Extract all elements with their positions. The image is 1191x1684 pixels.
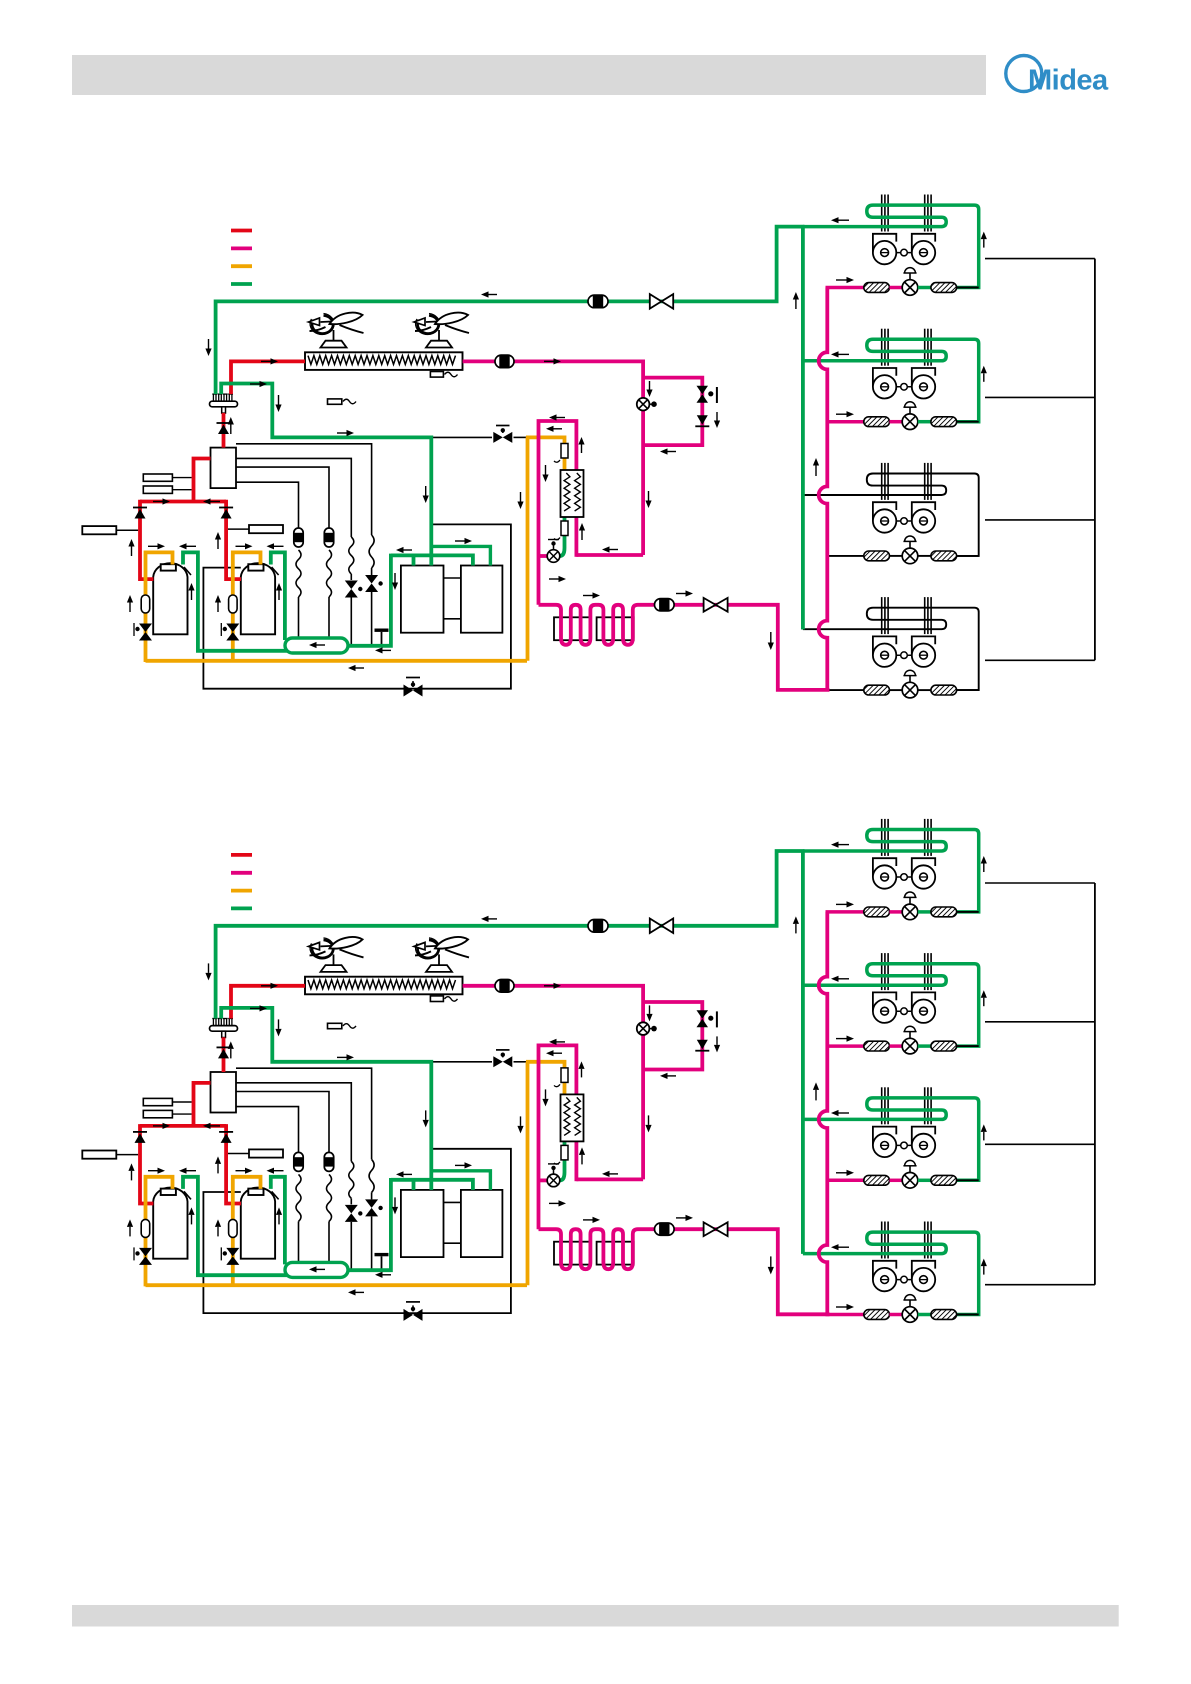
liquid pipe from HX (magenta) xyxy=(463,986,643,1180)
oil balance valve xyxy=(404,685,414,697)
indoor unit 3 strainer 1 xyxy=(864,551,890,561)
wire xyxy=(328,1221,330,1262)
subcooler right pipe (magenta) xyxy=(575,517,579,557)
indoor unit 2 fans xyxy=(885,1010,924,1012)
wire xyxy=(371,1216,373,1268)
subcooler plate HX xyxy=(561,470,584,517)
subcooler outlet (green) xyxy=(560,1141,565,1180)
label box xyxy=(143,1098,172,1105)
indoor unit 3 electronic expansion valve xyxy=(909,539,911,548)
accumulator branch (green) xyxy=(431,546,490,565)
check valve xyxy=(219,507,233,509)
indoor unit 1 pipe xyxy=(918,286,931,290)
check valve xyxy=(350,574,352,580)
accumulator tank 2 xyxy=(461,1190,503,1257)
indoor unit 1 strainer 1 xyxy=(864,907,890,917)
indoor unit 2 strainer 2 xyxy=(931,417,957,427)
indoor unit 2 coil + gas pipe xyxy=(803,964,979,1046)
check valve xyxy=(219,1131,233,1133)
EEV bypass (magenta) xyxy=(643,378,702,446)
oil valve xyxy=(139,624,152,633)
legend orange = oil pipe xyxy=(231,889,252,893)
header bar xyxy=(72,55,986,95)
pressure sensor xyxy=(328,399,342,404)
indoor unit 2 strainer 2 xyxy=(931,1041,957,1051)
legend red = discharge pipe xyxy=(231,853,252,857)
check valve xyxy=(133,1131,147,1133)
compressor 2 xyxy=(241,1188,275,1259)
subcooler EEV stub (magenta) xyxy=(539,1179,548,1183)
indoor unit 3 pipe xyxy=(957,1179,979,1181)
subcooler right pipe (magenta) xyxy=(575,1141,579,1181)
indoor unit 3 fans xyxy=(885,1144,924,1146)
subcooler loop (magenta) xyxy=(539,1045,577,1229)
indoor unit 2 flow arrow xyxy=(836,1038,847,1040)
indoor unit 4 coil + gas pipe xyxy=(803,1232,979,1314)
indoor unit 2 coil + gas pipe xyxy=(803,339,979,421)
accumulator branch (green) xyxy=(431,1171,490,1190)
label box xyxy=(143,1110,172,1117)
svg-text:Midea: Midea xyxy=(1028,65,1109,97)
compressor 1 discharge (red) xyxy=(140,1124,153,1203)
capillary xyxy=(327,550,332,597)
indoor unit 1 liquid pipe xyxy=(826,910,864,914)
indoor unit 1 flow arrow xyxy=(836,903,847,905)
indoor unit 3 pipe xyxy=(890,1179,903,1183)
indoor unit 2 electronic expansion valve xyxy=(909,1030,911,1039)
discharge manifold (red) xyxy=(140,1124,226,1128)
heater element xyxy=(430,996,443,1002)
oil pipe (orange) xyxy=(526,1062,530,1285)
compressor 2 xyxy=(241,563,275,634)
indoor unit 2 pipe xyxy=(890,1044,903,1048)
legend green = suction pipe xyxy=(231,907,252,911)
outdoor heat exchanger xyxy=(305,977,463,995)
indoor unit 4 pipe xyxy=(957,1314,979,1316)
accumulator manifold (green) xyxy=(391,555,473,565)
liquid pipe (magenta) xyxy=(576,1178,643,1182)
indoor unit 1 coil + gas pipe xyxy=(803,205,979,287)
indoor unit 4 pipe xyxy=(918,1313,931,1317)
tank connector xyxy=(444,618,461,620)
indoor unit 3 flow arrow xyxy=(983,1132,985,1141)
indoor unit 1 flow arrow xyxy=(983,864,985,873)
liquid pipe (magenta) xyxy=(576,553,643,557)
indoor unit 3 coil + gas pipe xyxy=(803,474,979,556)
indoor unit 4 flow arrow xyxy=(839,1246,850,1248)
liquid sight glass xyxy=(655,1223,675,1235)
indoor unit 2 flow arrow xyxy=(983,998,985,1007)
compressor 2 discharge (red) xyxy=(226,1124,241,1203)
indoor unit 4 flow arrow xyxy=(983,1266,985,1275)
compressor 1 discharge (red) xyxy=(140,500,153,579)
compressor 1 oil line (orange) xyxy=(146,1177,173,1287)
compressor 2 suction (green) xyxy=(271,1177,285,1265)
outdoor fan 1 xyxy=(312,316,333,334)
sight glass xyxy=(294,528,303,547)
4-way valve xyxy=(210,401,238,407)
check valve xyxy=(350,1198,352,1204)
indoor unit 1 flow arrow xyxy=(839,844,850,846)
indoor unit 3 fans xyxy=(885,520,924,522)
check valve xyxy=(371,568,373,575)
main EEV xyxy=(637,1022,650,1035)
indoor unit 2 flow arrow xyxy=(839,353,850,355)
oil separator xyxy=(211,448,237,489)
indoor unit 1 electronic expansion valve xyxy=(909,895,911,904)
suction header (green) xyxy=(285,1262,348,1277)
oil line 4 xyxy=(236,1107,299,1153)
capillary xyxy=(369,535,374,568)
indoor unit 3 pipe xyxy=(918,555,931,557)
wire xyxy=(328,597,330,638)
indoor unit 4 pipe xyxy=(890,689,903,691)
bypass stop valve xyxy=(697,1010,709,1019)
suction drop (green) xyxy=(346,1178,391,1270)
suction drop (green) xyxy=(346,554,391,646)
oil manifold (orange) xyxy=(146,659,528,663)
indoor unit 2 electronic expansion valve xyxy=(909,405,911,414)
indoor unit 1 strainer 2 xyxy=(931,907,957,917)
oil pipe (orange) xyxy=(526,437,530,660)
liquid main out (magenta) xyxy=(655,1229,830,1314)
accumulator tank 1 xyxy=(401,1190,444,1257)
oil return line xyxy=(236,1068,372,1159)
suction header (green) xyxy=(285,638,348,653)
oil pipe (orange) xyxy=(526,1062,565,1095)
indoor unit 4 liquid pipe xyxy=(826,1313,864,1317)
indoor unit 3 pipe xyxy=(890,555,903,557)
accumulator stub (green) xyxy=(429,555,433,565)
indoor unit 1 pipe xyxy=(957,911,979,913)
indoor unit 1 fans xyxy=(885,252,924,254)
indoor unit 4 electronic expansion valve xyxy=(909,1298,911,1307)
indoor unit 1 pipe xyxy=(957,287,979,289)
liquid pipe coil boxes xyxy=(554,617,591,640)
indoor unit 4 strainer 2 xyxy=(931,685,957,695)
capillary xyxy=(296,550,301,597)
indoor unit 4 fans xyxy=(885,654,924,656)
flow arrows xyxy=(489,918,498,920)
outdoor fan 1 xyxy=(312,940,333,958)
oil line 2 xyxy=(236,1083,351,1162)
indoor unit 1 fans xyxy=(885,876,924,878)
liquid serpentine (magenta) xyxy=(539,605,655,645)
indoor unit 3 pipe xyxy=(918,1179,931,1183)
indoor unit 2 flow arrow xyxy=(836,413,847,415)
label box xyxy=(143,474,172,481)
indoor unit 3 flow arrow xyxy=(836,1172,847,1174)
indoor unit 3 liquid pipe xyxy=(826,1179,864,1183)
bypass line xyxy=(433,1061,492,1063)
indoor unit 4 flow arrow xyxy=(836,1306,847,1308)
indoor unit 4 pipe xyxy=(957,689,979,691)
indoor unit 3 heat-exchanger fins xyxy=(881,463,883,500)
accumulator tank 2 xyxy=(461,566,503,633)
sight glass xyxy=(324,528,333,547)
indoor unit 1 coil + gas pipe xyxy=(803,830,979,912)
oil return solenoid valve xyxy=(493,432,503,443)
oil sight glass xyxy=(229,1219,238,1237)
outdoor heat exchanger xyxy=(305,352,463,370)
capillary xyxy=(349,1161,354,1198)
indoor unit 3 strainer 2 xyxy=(931,1175,957,1185)
oil sight glass xyxy=(141,595,150,613)
wire xyxy=(298,597,300,638)
indoor unit 1 flow arrow xyxy=(836,279,847,281)
discharge pipe (red) xyxy=(222,1037,226,1072)
4-way valve xyxy=(210,1026,238,1032)
liquid pipe coil boxes xyxy=(554,1242,591,1265)
indoor unit 2 fans xyxy=(885,386,924,388)
discharge pipe (red) xyxy=(194,459,211,502)
compressor 2 oil line (orange) xyxy=(233,1177,261,1287)
compressor 1 xyxy=(153,1188,187,1259)
gas sight glass xyxy=(588,295,608,308)
indoor unit 2 pipe xyxy=(957,421,979,423)
oil valve xyxy=(139,1248,152,1257)
compressor 1 suction (green) xyxy=(183,552,288,650)
gas ball valve xyxy=(650,294,673,309)
tank connector xyxy=(444,1201,461,1203)
check valve xyxy=(217,422,231,424)
subcooler EEV xyxy=(547,550,560,563)
suction header pipe (green) xyxy=(221,1008,431,1180)
wire xyxy=(298,1221,300,1262)
suction pipe (green) xyxy=(216,227,805,395)
indoor unit 1 strainer 1 xyxy=(864,283,890,293)
subcooler loop (magenta) xyxy=(539,421,577,605)
label box xyxy=(82,526,116,534)
sight glass xyxy=(324,1152,333,1171)
oil sight glass xyxy=(229,595,238,613)
capillary xyxy=(369,1159,374,1192)
liquid pipe from HX (magenta) xyxy=(463,361,643,555)
legend magenta = liquid pipe xyxy=(231,246,252,250)
indoor unit 3 strainer 1 xyxy=(864,1175,890,1185)
discharge manifold (red) xyxy=(140,500,226,504)
discharge pipe (red) xyxy=(222,413,226,448)
pressure sensor xyxy=(328,1023,342,1028)
liquid main out (magenta) xyxy=(655,605,830,690)
indoor unit 4 liquid pipe xyxy=(826,689,864,691)
indoor unit 4 strainer 1 xyxy=(864,1310,890,1320)
liquid main vertical (magenta) xyxy=(819,912,828,1314)
suction pipe (green) xyxy=(216,851,805,1019)
indoor unit 2 pipe xyxy=(918,1044,931,1048)
subcooler plate HX xyxy=(561,1094,584,1141)
liquid serpentine (magenta) xyxy=(539,1229,655,1269)
legend green = suction pipe xyxy=(231,282,252,286)
indoor unit 1 flow arrow xyxy=(983,239,985,248)
indoor unit 4 electronic expansion valve xyxy=(909,674,911,683)
liquid ball valve xyxy=(704,598,728,612)
unit enclosure line xyxy=(203,524,511,688)
heater element xyxy=(430,372,443,378)
bypass check valve xyxy=(697,415,708,425)
liquid sight glass xyxy=(495,355,514,368)
check valve xyxy=(371,1192,373,1199)
oil filter xyxy=(561,1068,568,1083)
oil valve xyxy=(226,1248,239,1257)
oil line 3 xyxy=(236,1092,329,1153)
oil return line xyxy=(236,444,372,535)
indoor unit 2 heat-exchanger fins xyxy=(881,953,883,990)
indoor unit 2 strainer 1 xyxy=(864,1041,890,1051)
indoor unit 4 heat-exchanger fins xyxy=(881,1222,883,1259)
legend magenta = liquid pipe xyxy=(231,871,252,875)
indoor unit 3 strainer 2 xyxy=(931,551,957,561)
service port plug xyxy=(375,629,389,632)
oil manifold (orange) xyxy=(146,1283,528,1287)
indoor unit 1 pipe xyxy=(890,286,903,290)
discharge pipe (red) xyxy=(231,986,305,1019)
liquid main vertical (magenta) xyxy=(819,288,828,690)
discharge pipe (red) xyxy=(231,361,305,394)
EEV bypass (magenta) xyxy=(643,1002,702,1070)
accumulator stub (green) xyxy=(412,1180,416,1190)
indoor unit 1 pipe xyxy=(890,910,903,914)
discharge pipe (red) xyxy=(194,1083,211,1126)
compressor 2 suction (green) xyxy=(271,552,285,640)
subcooler EEV xyxy=(547,1174,560,1187)
wire xyxy=(371,592,373,644)
indoor unit 4 heat-exchanger fins xyxy=(881,597,883,634)
indoor unit 1 heat-exchanger fins xyxy=(881,819,883,856)
indoor unit 2 liquid pipe xyxy=(826,420,864,424)
indoor units wiring frame xyxy=(1094,259,1096,661)
indoor unit 4 pipe xyxy=(918,689,931,691)
compressor 1 xyxy=(153,563,187,634)
liquid sight glass xyxy=(495,980,514,993)
indoor unit 1 electronic expansion valve xyxy=(909,271,911,280)
gas main vertical (green) xyxy=(801,851,805,1254)
check valve xyxy=(217,1046,231,1048)
indoor unit 3 electronic expansion valve xyxy=(909,1164,911,1173)
bypass line xyxy=(433,436,492,438)
label box xyxy=(82,1151,116,1159)
oil return solenoid valve xyxy=(493,1056,503,1067)
liquid sight glass xyxy=(655,599,675,611)
gas filter xyxy=(561,1145,568,1160)
indoor unit 3 pipe xyxy=(957,555,979,557)
liquid ball valve xyxy=(704,1222,728,1236)
compressor 1 oil line (orange) xyxy=(146,552,173,662)
oil balance valve xyxy=(404,1309,414,1321)
tank connector xyxy=(444,1242,461,1244)
unit enclosure line xyxy=(203,1149,511,1313)
service port plug xyxy=(375,1253,389,1256)
indoor unit 1 flow arrow xyxy=(839,219,850,221)
indoor unit 4 coil + gas pipe xyxy=(803,608,979,690)
legend orange = oil pipe xyxy=(231,264,252,268)
capillary xyxy=(349,537,354,574)
indoor unit 2 strainer 1 xyxy=(864,417,890,427)
indoor unit 4 fans xyxy=(885,1279,924,1281)
indoor unit 3 coil + gas pipe xyxy=(803,1098,979,1180)
oil separator xyxy=(211,1072,237,1113)
indoor unit 3 heat-exchanger fins xyxy=(881,1087,883,1124)
main EEV xyxy=(637,398,650,411)
sight glass xyxy=(294,1152,303,1171)
indoor unit 2 pipe xyxy=(957,1045,979,1047)
flow arrows xyxy=(489,294,498,296)
indoor units wiring frame xyxy=(1094,883,1096,1285)
capillary xyxy=(327,1174,332,1221)
indoor unit 2 pipe xyxy=(918,420,931,424)
outdoor fan 2 xyxy=(418,940,439,958)
indoor unit 2 flow arrow xyxy=(983,373,985,382)
indoor unit 4 pipe xyxy=(890,1313,903,1317)
legend red = discharge pipe xyxy=(231,229,252,233)
indoor unit 3 liquid pipe xyxy=(826,555,864,557)
oil line 2 xyxy=(236,458,351,537)
indoor unit 1 heat-exchanger fins xyxy=(881,195,883,232)
bypass check valve xyxy=(697,1040,708,1050)
indoor unit 2 liquid pipe xyxy=(826,1044,864,1048)
gas filter xyxy=(561,521,568,536)
indoor unit 2 flow arrow xyxy=(839,978,850,980)
Midea logo xyxy=(1006,56,1042,92)
oil filter xyxy=(561,444,568,459)
indoor unit 4 strainer 2 xyxy=(931,1310,957,1320)
bypass stop valve xyxy=(697,386,709,395)
suction header pipe (green) xyxy=(221,384,431,556)
capillary xyxy=(296,1174,301,1221)
oil line 4 xyxy=(236,482,299,528)
wire xyxy=(350,1222,352,1269)
accumulator tank 1 xyxy=(401,566,444,633)
accumulator stub (green) xyxy=(412,555,416,565)
compressor 2 discharge (red) xyxy=(226,500,241,579)
indoor unit 1 pipe xyxy=(918,910,931,914)
oil valve xyxy=(226,624,239,633)
oil pipe (orange) xyxy=(526,437,565,470)
oil line 3 xyxy=(236,467,329,528)
compressor 1 suction (green) xyxy=(183,1177,288,1275)
indoor unit 4 strainer 1 xyxy=(864,685,890,695)
wire xyxy=(350,598,352,645)
gas main vertical (green) xyxy=(801,227,805,630)
oil sight glass xyxy=(141,1219,150,1237)
indoor unit 3 flow arrow xyxy=(839,1112,850,1114)
gas sight glass xyxy=(588,920,608,933)
indoor unit 2 heat-exchanger fins xyxy=(881,329,883,366)
accumulator stub (green) xyxy=(429,1180,433,1190)
label box xyxy=(249,525,283,533)
subcooler outlet (green) xyxy=(560,517,565,556)
indoor unit 2 pipe xyxy=(890,420,903,424)
label box xyxy=(143,486,172,493)
tank connector xyxy=(444,577,461,579)
footer bar xyxy=(72,1605,1119,1627)
indoor unit 1 liquid pipe xyxy=(826,286,864,290)
subcooler EEV stub (magenta) xyxy=(539,554,548,558)
check valve xyxy=(133,507,147,509)
gas ball valve xyxy=(650,919,673,934)
accumulator manifold (green) xyxy=(391,1180,473,1190)
compressor 2 oil line (orange) xyxy=(233,552,261,662)
label box xyxy=(249,1149,283,1157)
indoor unit 1 strainer 2 xyxy=(931,283,957,293)
outdoor fan 2 xyxy=(418,316,439,334)
